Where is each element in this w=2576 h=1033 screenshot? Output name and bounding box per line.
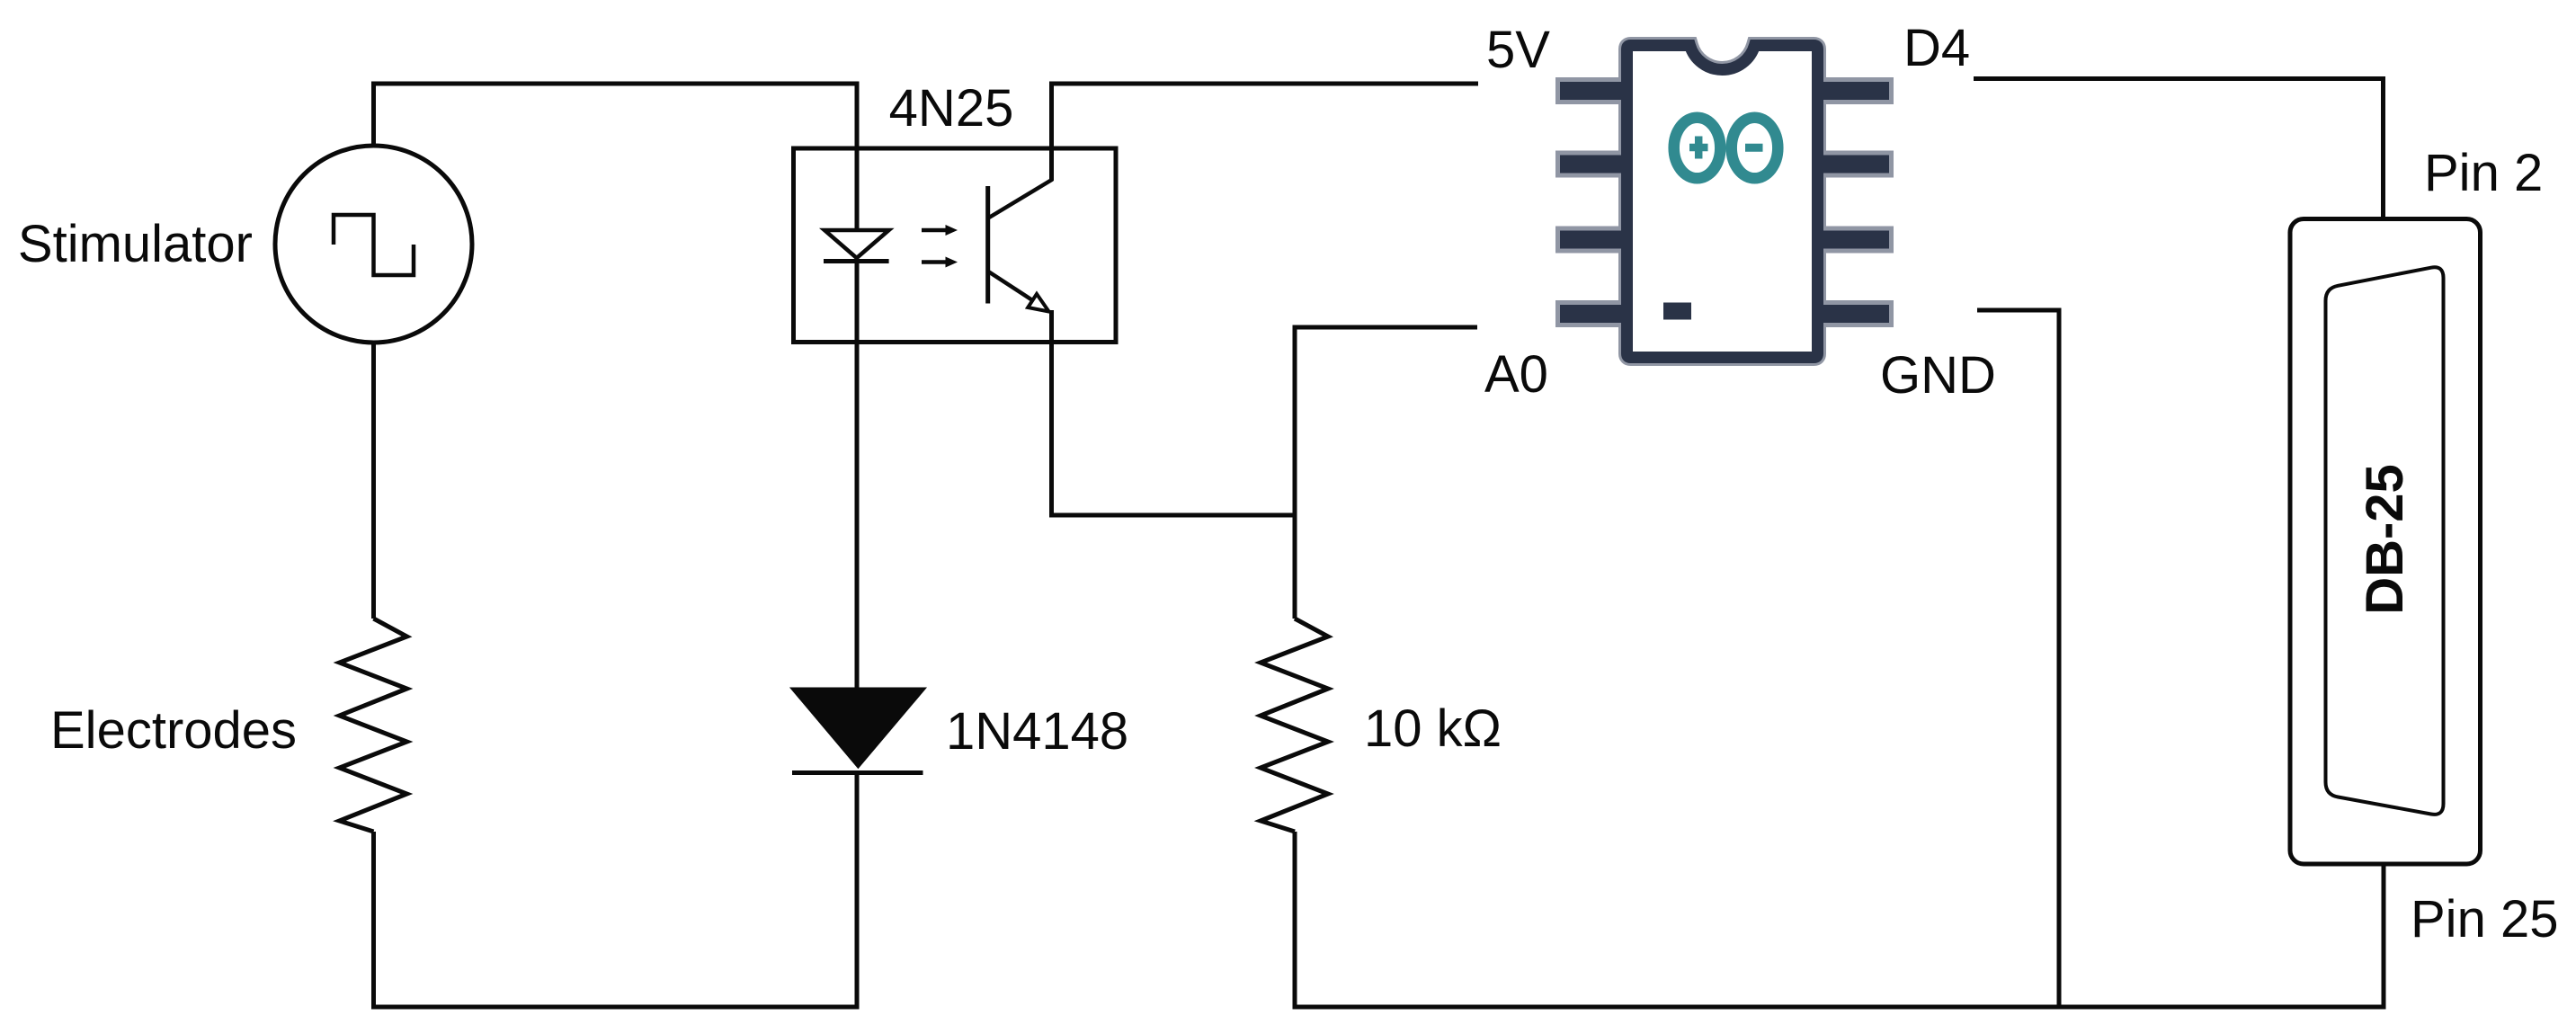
svg-text:10 kΩ: 10 kΩ (1364, 699, 1502, 758)
wire: phototransistor collector up to 5V stub (1052, 84, 1479, 181)
svg-text:Pin 2: Pin 2 (2424, 144, 2543, 202)
Arduino logo plus sign (1689, 137, 1708, 159)
svg-text:D4: D4 (1903, 19, 1970, 77)
svg-text:4N25: 4N25 (889, 79, 1014, 138)
svg-text:GND: GND (1880, 346, 1996, 405)
svg-text:Electrodes: Electrodes (50, 701, 297, 760)
light arrow 1 (922, 228, 947, 233)
optocoupler U1 4N25 package box (794, 148, 1117, 343)
IC U2 Arduino left pins (1560, 82, 1629, 100)
svg-text:1N4148: 1N4148 (946, 702, 1128, 761)
light arrow 2 (922, 260, 947, 264)
Arduino logo minus sign (1745, 144, 1763, 152)
diode D1 1N4148 filled triangle (790, 688, 926, 769)
svg-text:Pin 25: Pin 25 (2411, 890, 2558, 948)
IC U2 Arduino DIP body with notch (1627, 46, 1818, 358)
wire: GND stub down to ground rail (1977, 310, 2059, 1007)
wire: A0 stub and lead down to 10k resistor (1295, 327, 1477, 619)
wire: stimulator bottom lead to electrodes resistor (371, 342, 376, 619)
wire: LED cathode down to diode anode (855, 262, 860, 689)
wire: phototransistor emitter down and right to A0 node (1052, 310, 1296, 515)
resistor R1 Electrodes (zigzag) (340, 619, 407, 832)
stimulator source circle (275, 146, 472, 343)
svg-text:A0: A0 (1484, 345, 1548, 404)
phototransistor collector diagonal (989, 180, 1053, 218)
DB-25 connector outer shell (2290, 219, 2481, 865)
phototransistor emitter diagonal (989, 272, 1033, 301)
svg-text:5V: 5V (1486, 21, 1550, 79)
wire: D4 stub to DB25 pin 2 (1974, 79, 2384, 218)
LED D2 inside optocoupler (emitter diode) (824, 230, 889, 258)
svg-text:DB-25: DB-25 (2356, 464, 2414, 615)
wire: 10k resistor bottom to ground rail and DB25 pin 25 (1295, 832, 2384, 1007)
wire: electrodes bottom / ground return to diode cathode (374, 774, 858, 1007)
svg-text:Stimulator: Stimulator (18, 215, 253, 273)
IC U2 gray halo outline (1560, 82, 1889, 323)
IC U2 Arduino right pins (1815, 82, 1889, 100)
diode D1 cathode bar (792, 770, 923, 775)
phototransistor Q1 base bar (985, 186, 990, 304)
LED cathode bar (824, 259, 889, 263)
phototransistor emitter open arrowhead (1028, 294, 1048, 312)
pulse waveform symbol (334, 215, 414, 275)
Arduino logo left ring (1674, 118, 1721, 179)
wire: stimulator top to LED anode (top-left net) (374, 84, 858, 230)
IC pin-1 marker (1663, 303, 1691, 320)
DB-25 connector inner D-sub face (2326, 267, 2444, 815)
Arduino logo right ring (1732, 118, 1778, 179)
resistor R2 10k (zigzag) (1261, 619, 1328, 832)
